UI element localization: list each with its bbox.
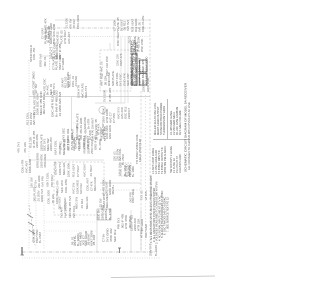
- wire: [140, 91, 142, 250]
- svg-text:C7 PRI: C7 PRI: [112, 113, 116, 123]
- svg-text:47K 5Y3: 47K 5Y3: [17, 142, 21, 153]
- svg-text:OSC 470K: OSC 470K: [140, 38, 144, 52]
- svg-text:MEG 22K: MEG 22K: [62, 162, 66, 175]
- svg-text:250V 5Y3: 250V 5Y3: [149, 243, 153, 256]
- svg-text:6SA7 2200: 6SA7 2200: [145, 56, 149, 72]
- wire: [100, 189, 141, 191]
- svg-text:100K SEC: 100K SEC: [55, 191, 59, 205]
- svg-text:MEG MEG: MEG MEG: [105, 193, 109, 208]
- svg-text:470K MEG: 470K MEG: [43, 153, 47, 168]
- wire: [44, 221, 97, 223]
- svg-text:GRID 6V6: GRID 6V6: [39, 53, 43, 67]
- wire: [28, 60, 30, 250]
- svg-text:MEG 22K: MEG 22K: [85, 196, 89, 209]
- svg-text:COIL GRID: COIL GRID: [76, 15, 80, 29]
- svg-text:250V 6SK7: 250V 6SK7: [90, 139, 94, 154]
- svg-text:2200 6V6: 2200 6V6: [142, 80, 146, 92]
- svg-text:6V6 6V6: 6V6 6V6: [126, 20, 130, 31]
- wire: [52, 36, 150, 38]
- wire: [127, 37, 129, 103]
- tube V2 envelope: [99, 106, 106, 113]
- svg-text:.002 6SA7 R12: .002 6SA7 R12: [42, 94, 46, 115]
- svg-text:COIL 470K: COIL 470K: [64, 179, 68, 193]
- wire: [145, 95, 147, 250]
- svg-text:6SK7 .002 OSC: 6SK7 .002 OSC: [105, 56, 109, 76]
- svg-text:B+ 470K: B+ 470K: [108, 208, 112, 220]
- svg-text:OSC 6SA7: OSC 6SA7: [116, 31, 120, 46]
- wire: [71, 97, 73, 131]
- svg-text:.01 6SK7: .01 6SK7: [89, 165, 93, 177]
- svg-text:MEG 5Y3: MEG 5Y3: [84, 85, 88, 98]
- svg-text:C7 GRID: C7 GRID: [61, 57, 65, 70]
- svg-text:AVC ANT: AVC ANT: [67, 32, 71, 44]
- svg-text:R7 TAP: R7 TAP: [34, 83, 38, 93]
- svg-text:FIELD 2500 OHM: FIELD 2500 OHM: [138, 138, 142, 162]
- svg-text:.01 2200 AVC 6V6: .01 2200 AVC 6V6: [58, 91, 62, 117]
- power transformer T1 primary: [132, 54, 137, 85]
- wire: [29, 96, 150, 98]
- svg-text:GRID 6V6: GRID 6V6: [40, 188, 44, 202]
- wire: [41, 55, 50, 57]
- wire: [130, 210, 132, 252]
- oscillator coil box: [119, 163, 131, 176]
- wire: [124, 37, 126, 103]
- svg-text:2200 C7: 2200 C7: [127, 108, 131, 119]
- rectifier V5 5Y3: [140, 60, 148, 72]
- svg-text:R2 1 MEG VOLUME: R2 1 MEG VOLUME: [178, 110, 182, 135]
- svg-text:47K 22K: 47K 22K: [23, 142, 27, 153]
- wire: [100, 182, 141, 184]
- wire: [55, 19, 150, 21]
- wire: [73, 122, 97, 124]
- tube V3 envelope: [100, 107, 102, 109]
- wire: [111, 276, 215, 278]
- svg-text:6SK7 GND: 6SK7 GND: [144, 224, 148, 238]
- svg-text:6V6 PRI: 6V6 PRI: [41, 176, 45, 187]
- svg-text:22K 470K: 22K 470K: [77, 138, 81, 151]
- svg-text:PRI 6SK7: PRI 6SK7: [50, 174, 54, 187]
- ground symbol: [21, 247, 23, 255]
- svg-text:AVC 100K: AVC 100K: [72, 138, 76, 151]
- svg-text:MEG 6SA7: MEG 6SA7: [62, 140, 66, 155]
- svg-text:C7 AVC .05: C7 AVC .05: [100, 61, 104, 76]
- svg-text:GND GRID: GND GRID: [108, 125, 112, 139]
- svg-text:SW R12: SW R12: [79, 183, 83, 194]
- svg-text:.002 B+: .002 B+: [111, 185, 115, 195]
- wire: [109, 43, 111, 50]
- svg-text:IF 455 HTR: IF 455 HTR: [108, 88, 112, 102]
- wire: [96, 210, 98, 252]
- svg-text:ALL VOLTAGES TO CHASSIS WITH V: ALL VOLTAGES TO CHASSIS WITH VTVM 117V A…: [187, 102, 191, 170]
- filter capacitor C15: [140, 74, 148, 86]
- svg-text:C7 6SA7: C7 6SA7: [76, 165, 80, 177]
- power switch S2 box: [97, 209, 111, 220]
- wire: [49, 28, 51, 70]
- svg-text:6SK7 B+: 6SK7 B+: [67, 139, 71, 151]
- svg-text:R12 6SA7: R12 6SA7: [71, 163, 75, 177]
- ganged shaft dashed line: [29, 205, 35, 245]
- gang arrow 1: [27, 214, 33, 218]
- svg-text:B+ GRID: B+ GRID: [154, 245, 158, 256]
- svg-text:6SK7 MEG: 6SK7 MEG: [131, 189, 135, 203]
- svg-text:AVC 6SK7: AVC 6SK7: [83, 163, 87, 177]
- svg-text:2200 HTR: 2200 HTR: [49, 136, 53, 151]
- svg-text:6SA7 47K: 6SA7 47K: [119, 53, 123, 66]
- svg-text:HTR B+: HTR B+: [140, 228, 144, 238]
- wire: [149, 19, 151, 252]
- parts list rule: [167, 99, 169, 139]
- svg-text:HTR B+: HTR B+: [144, 190, 148, 200]
- svg-text:HTR 47K: HTR 47K: [97, 123, 101, 135]
- svg-text:.05 .002: .05 .002: [92, 235, 96, 246]
- parts list divider: [153, 139, 190, 141]
- svg-text:THORDARSON T13R01: THORDARSON T13R01: [162, 105, 166, 135]
- svg-text:100K 2200: 100K 2200: [28, 159, 32, 173]
- chassis boundary 2: [22, 257, 160, 259]
- svg-text:5Y3 .01: 5Y3 .01: [140, 190, 144, 200]
- svg-text:SEC R12: SEC R12: [113, 229, 117, 242]
- svg-text:7. SEE SERVICE TEXT PG 12: 7. SEE SERVICE TEXT PG 12: [165, 197, 169, 232]
- tuning unit shield box: [54, 162, 104, 215]
- svg-text:SPKR 5IN PM ALNICO: SPKR 5IN PM ALNICO: [163, 146, 167, 174]
- svg-text:5Y3 100K: 5Y3 100K: [103, 90, 107, 102]
- svg-text:AVC COIL: AVC COIL: [118, 148, 122, 161]
- wire: [140, 210, 142, 252]
- chassis boundary: [22, 251, 157, 253]
- svg-text:COIL PLATE: COIL PLATE: [141, 16, 145, 32]
- IF transformer can outline: [100, 50, 131, 91]
- svg-text:100K 100K: 100K 100K: [67, 163, 71, 177]
- svg-text:B+ 470K: B+ 470K: [98, 139, 102, 150]
- svg-text:6SK7 COIL: 6SK7 COIL: [45, 172, 49, 187]
- svg-text:AVC GND: AVC GND: [32, 112, 36, 125]
- svg-text:B+ 6SA7: B+ 6SA7: [38, 231, 42, 243]
- wire: [120, 37, 122, 103]
- wire: [44, 230, 97, 232]
- svg-text:5Y3 SEC: 5Y3 SEC: [62, 128, 66, 140]
- gang arrow 3: [29, 230, 35, 234]
- wire: [95, 102, 125, 104]
- vertical wire: [35, 195, 37, 250]
- svg-text:B+ 100K: B+ 100K: [131, 166, 135, 177]
- svg-text:.01 R12: .01 R12: [80, 198, 84, 209]
- svg-text:6V6 COIL: 6V6 COIL: [72, 205, 76, 218]
- svg-text:2200 470K: 2200 470K: [35, 134, 39, 148]
- svg-text:COIL 450: COIL 450: [32, 47, 36, 60]
- svg-text:.002 .01: .002 .01: [43, 56, 47, 67]
- svg-text:MEG GND: MEG GND: [93, 177, 97, 191]
- wire: [113, 29, 115, 50]
- wire: [45, 27, 150, 29]
- wire: [29, 159, 104, 161]
- gang arrow 2: [28, 222, 34, 226]
- ground tap: [118, 247, 121, 249]
- svg-text:CHASSIS GND: CHASSIS GND: [178, 154, 182, 173]
- svg-text:GND IF 455: GND IF 455: [94, 135, 98, 150]
- svg-text:GRID 100K: GRID 100K: [146, 78, 150, 92]
- vertical wire2: [43, 195, 45, 250]
